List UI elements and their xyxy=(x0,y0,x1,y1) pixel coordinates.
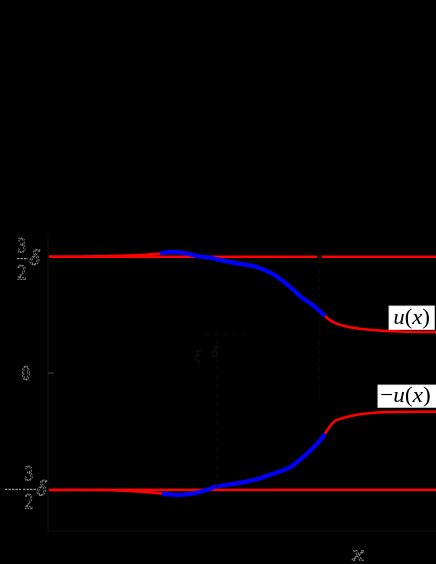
svg-text:2: 2 xyxy=(25,489,34,514)
svg-text:δ: δ xyxy=(211,345,219,361)
svg-text:x: x xyxy=(351,541,364,564)
svg-text:δ: δ xyxy=(29,245,40,270)
svg-text:3: 3 xyxy=(25,461,34,486)
svg-text:−u(x): −u(x) xyxy=(380,382,431,407)
svg-text:2: 2 xyxy=(17,259,27,284)
svg-text:0: 0 xyxy=(22,361,30,385)
svg-text:u(x): u(x) xyxy=(393,304,430,329)
svg-text:3: 3 xyxy=(18,233,26,258)
svg-text:ξ: ξ xyxy=(194,349,201,365)
svg-text:δ: δ xyxy=(36,475,47,500)
